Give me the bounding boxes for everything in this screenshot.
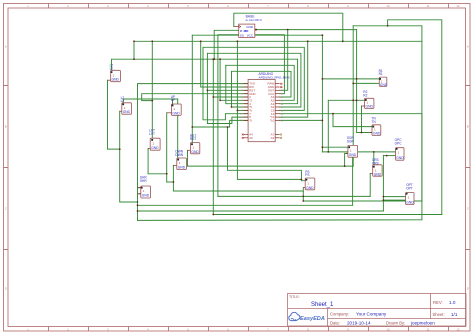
svg-text:M: M — [240, 29, 243, 33]
junction (137.5,205.3) — [137, 204, 139, 206]
svg-text:OPT: OPT — [406, 187, 413, 191]
EasyEDA logo cloud — [289, 312, 300, 320]
button L2 — [120, 96, 132, 114]
wire line y65 pin4 to A2 — [226, 65, 294, 100]
svg-text:GND: GND — [374, 173, 382, 177]
svg-text:1.0: 1.0 — [449, 300, 456, 305]
wire *11 to bus y41 — [280, 41, 308, 117]
svg-text:D: D — [467, 287, 469, 291]
wire CRS pin1 drop from OPC row — [373, 152, 374, 167]
junction (166.7,173.8) — [166, 173, 168, 175]
title block divider horizontal 2 — [328, 318, 467, 320]
svg-text:GND: GND — [380, 83, 388, 87]
wire TXO to SHR col — [138, 84, 249, 221]
wire x421 down to bottom B4 — [138, 114, 422, 221]
svg-text:GND: GND — [366, 105, 374, 109]
wire long row y196 to CRS gnd — [218, 195, 370, 197]
wire R1 pin1 feed from trunk — [322, 78, 380, 80]
junction (213.3,97) — [212, 96, 214, 98]
svg-text:GND: GND — [172, 111, 180, 115]
wire RST left pin stub — [207, 89, 248, 91]
svg-text:GND: GND — [349, 153, 357, 157]
svg-text:A5: A5 — [249, 136, 253, 140]
wire RST right pin up to BASE row — [280, 30, 288, 91]
junction (356.6,100.3) — [356, 99, 358, 101]
svg-text:LFT: LFT — [149, 132, 155, 136]
junction (231.5,107) — [231, 106, 233, 108]
wire LT riser x134 — [133, 41, 135, 59]
svg-text:OPC: OPC — [395, 142, 403, 146]
junction (303.3,196.4) — [302, 196, 304, 198]
svg-text:*10: *10 — [270, 119, 275, 123]
svg-text:MD: MD — [244, 29, 250, 33]
wire GND pin to LFT riser link — [142, 94, 248, 101]
wire LFT pin1 riser to bus41 — [151, 41, 152, 140]
junction (353.2,151.9) — [352, 151, 354, 153]
svg-text:GND: GND — [191, 150, 199, 154]
wire SGR pin1 feed — [322, 146, 348, 148]
wire BASE clk loop to far right — [234, 13, 343, 41]
button R1 — [379, 69, 388, 87]
wire OPC gnd drop x383 — [382, 155, 384, 211]
junction (322.4,147.2) — [322, 146, 324, 148]
button PS — [303, 170, 315, 190]
svg-text:C: C — [5, 207, 7, 211]
svg-text:GND: GND — [178, 165, 186, 169]
border ticks left — [4, 86, 9, 250]
svg-text:ARDUINO_PRO_MINI: ARDUINO_PRO_MINI — [259, 76, 290, 80]
wire RSTcomp gnd drop — [187, 150, 189, 166]
svg-text:GND: GND — [396, 156, 404, 160]
title block outline — [288, 294, 467, 327]
junction (200.7,41.3) — [200, 40, 202, 42]
svg-text:UP: UP — [171, 98, 175, 102]
junction (237.4,41.3) — [237, 40, 239, 42]
button OPC — [395, 138, 405, 160]
wire RXI from bus y41 — [201, 41, 248, 87]
wire R2 drop to OPC row — [327, 100, 329, 152]
junction (342.8,41.3) — [342, 40, 344, 42]
junction (152.3,100.6) — [151, 100, 153, 102]
junction (356.6,78.9) — [356, 78, 358, 80]
junction (322.4,120.4) — [322, 120, 324, 122]
junction (214.2,59.2) — [213, 58, 215, 60]
wire VCC pin loop to BASE — [239, 35, 285, 94]
wire BASE right pin to x356 — [255, 29, 357, 31]
svg-text:GND: GND — [112, 78, 120, 82]
junction (333,113.7) — [332, 113, 334, 115]
svg-text:GND: GND — [123, 110, 131, 114]
svg-text:D: D — [5, 287, 7, 291]
junction (287.7,29.6) — [287, 29, 289, 31]
svg-text:1/1: 1/1 — [451, 312, 458, 317]
button DWN — [173, 149, 186, 169]
svg-text:GND: GND — [151, 146, 159, 150]
wire pin4 drop — [226, 65, 248, 103]
junction (220.1,100.3) — [219, 99, 221, 101]
junction (134,59.2) — [133, 58, 135, 60]
button UP — [167, 95, 182, 116]
wire pin2 left stub — [213, 96, 248, 98]
svg-text:Your Company: Your Company — [356, 312, 387, 317]
junction (213.3,59.2) — [212, 58, 214, 60]
button R2 — [362, 90, 374, 109]
title block divider vertical logo cell — [327, 309, 329, 327]
wire CRS gnd drop — [369, 173, 371, 196]
junction (361.5,132.5) — [361, 132, 363, 134]
wire *6 col x237 from bus41 down — [237, 41, 301, 179]
svg-text:Date:: Date: — [330, 321, 340, 326]
wire trunk x353 — [352, 26, 354, 166]
svg-text:*9: *9 — [249, 119, 252, 123]
wire line y53 to A0 — [207, 53, 301, 107]
junction (137.5,202) — [137, 201, 138, 202]
svg-text:DWN: DWN — [175, 153, 183, 157]
wire SGR gnd drop — [352, 157, 354, 205]
junction (227.5,127) — [227, 126, 229, 128]
border ticks bottom — [49, 327, 449, 332]
junction (207.4,90.3) — [207, 89, 209, 91]
svg-text:A: A — [467, 45, 469, 49]
svg-text:RST: RST — [190, 137, 196, 141]
wire long bus y41 — [134, 40, 422, 42]
title block divider horizontal 1 — [288, 308, 467, 310]
wire *6 left stub — [237, 109, 248, 111]
junction (353.2,100.3) — [352, 99, 354, 101]
junction (328.3,151.9) — [327, 151, 329, 153]
button LT — [108, 63, 121, 81]
wire *5 drop — [232, 71, 249, 107]
junction (213.3,214.5) — [212, 214, 214, 216]
wire pin2 drop from y59 — [212, 59, 214, 214]
junction (220.1,59.2) — [219, 58, 221, 60]
svg-text:GND: GND — [373, 131, 381, 135]
svg-text:R1: R1 — [379, 72, 383, 76]
border ticks right — [466, 86, 471, 250]
svg-text:joepmeloen: joepmeloen — [410, 321, 435, 326]
button LFT — [148, 128, 160, 150]
wire mid bus y166 to trunk — [188, 165, 354, 167]
wire *3 drop from y59 — [220, 59, 248, 100]
junction (192.3,127) — [191, 126, 193, 128]
wire TN pin1 from pin12 line — [333, 114, 372, 127]
connector BASE (mini DIN 6) — [234, 15, 262, 38]
wire UP pin1 riser — [172, 99, 174, 105]
svg-text:SHR: SHR — [140, 179, 147, 183]
wire LT gnd drop — [108, 80, 120, 149]
wire pin12 long line right — [280, 113, 422, 115]
svg-text:EasyEDA: EasyEDA — [300, 316, 325, 322]
wire OPT pin1 row — [383, 196, 405, 198]
wire DWN gnd drop — [173, 166, 303, 192]
junction (119.7,149.1) — [119, 148, 121, 150]
svg-text:Sheet:: Sheet: — [433, 312, 445, 317]
wire L2 gnd drop — [120, 111, 138, 202]
wire *9 loop — [192, 120, 248, 127]
junction (383.4,196.6) — [383, 196, 385, 198]
junction (386.7,155.6) — [386, 155, 388, 157]
wire top right line2 x421 down to PS net — [303, 26, 422, 201]
wire gnd link to DWN — [167, 181, 174, 183]
junction (387.6,25.8) — [387, 25, 389, 27]
wire LFT gnd drop — [148, 149, 167, 174]
junction (322.4,35.2) — [322, 34, 324, 36]
button SHR — [138, 175, 151, 198]
wire SGR pin2 to mid bus — [345, 153, 348, 166]
wire PS pin2 drop — [302, 188, 304, 201]
wire OPC pin1 row from trunk — [322, 151, 395, 153]
wire line y47 to pin13 — [203, 47, 304, 110]
junction (353.2,83.4) — [352, 83, 354, 85]
wire BASE SS pin left down — [218, 35, 239, 197]
wire top line y35 RSTcomp to trunk — [192, 34, 322, 36]
junction (134,41.3) — [133, 40, 135, 42]
svg-text:PS: PS — [305, 173, 309, 177]
wire bottom bus B3 — [213, 214, 441, 216]
border ticks top — [49, 4, 449, 9]
junction (303.3,201) — [302, 200, 304, 202]
svg-text:B: B — [5, 125, 7, 129]
svg-text:GND: GND — [142, 194, 150, 198]
junction (373.8,151.9) — [373, 151, 375, 153]
svg-text:SGR: SGR — [347, 139, 355, 143]
svg-text:A6: A6 — [271, 136, 275, 140]
button OPT — [406, 183, 415, 204]
wire *10 to trunk — [280, 119, 323, 121]
junction (137.5,211) — [137, 210, 139, 212]
wire line y59 LT to A1 — [112, 59, 298, 103]
wire L2 UP net y99 — [123, 99, 178, 104]
wire SHR pin stubs — [138, 187, 141, 189]
junction (173.4,182) — [173, 181, 175, 183]
svg-text:2019-10-14: 2019-10-14 — [347, 321, 371, 326]
wire BASE MD pin left down — [214, 30, 239, 59]
junction (152.3,41.3) — [151, 40, 153, 42]
junction (383.4,200.1) — [383, 199, 385, 201]
junction (237.4,110.4) — [237, 110, 239, 112]
wire x207 down to RST pin and pin8 loop — [207, 53, 248, 123]
wire trunk x356 down to TN gnd — [357, 30, 372, 133]
junction (307.7,41.3) — [307, 40, 309, 42]
wire OPC gnd row — [383, 155, 395, 157]
button RST — [188, 134, 200, 154]
wire line y71 *5 to A3 — [232, 71, 292, 97]
wire bottom bus B2 — [138, 210, 384, 212]
op component ARDUINO U1 — [240, 72, 289, 142]
junction (322.4,78.9) — [322, 78, 324, 80]
svg-text:Drawn By:: Drawn By: — [386, 321, 405, 326]
wire *9 col to PS pin1 — [228, 127, 307, 181]
svg-text:A: A — [5, 45, 7, 49]
wire bottom bus B1 — [138, 204, 353, 206]
button SGR — [346, 136, 358, 157]
wire trunk x322 down — [321, 35, 323, 152]
junction (344.6,166.1) — [344, 165, 346, 167]
title block divider vertical rev column — [430, 294, 432, 319]
wire UP gnd drop — [166, 113, 168, 182]
wire RSTcomp pin1 riser — [191, 35, 192, 144]
svg-text:C: C — [467, 207, 469, 211]
svg-text:to mini DIN 6: to mini DIN 6 — [246, 18, 263, 22]
junction (301.4,179.4) — [301, 179, 303, 181]
wire x203 down to pin7 loop — [203, 47, 248, 120]
wire R2 pin1 link — [328, 99, 366, 101]
wire DWN pin1 riser — [177, 99, 179, 159]
wire OPT gnd row — [383, 199, 405, 201]
svg-text:GND: GND — [406, 200, 414, 204]
wire far right loop x441 down to B3 — [388, 20, 442, 215]
button CRS — [370, 158, 382, 176]
wire R2 gnd drop — [361, 106, 363, 133]
svg-text:VCC: VCC — [247, 34, 254, 38]
svg-text:R2: R2 — [363, 93, 367, 97]
wire R1 gnd row — [353, 82, 379, 84]
svg-text:B: B — [467, 125, 469, 129]
svg-text:Company:: Company: — [330, 312, 349, 317]
svg-text:Sheet_1: Sheet_1 — [311, 302, 334, 308]
button TN — [370, 116, 381, 135]
wire SHR pin2 stub — [138, 193, 141, 195]
svg-text:GND: GND — [306, 186, 314, 190]
svg-text:SS: SS — [240, 34, 244, 38]
svg-text:TN: TN — [371, 120, 376, 124]
svg-text:REV:: REV: — [433, 300, 443, 305]
svg-text:TITLE:: TITLE: — [289, 295, 300, 299]
